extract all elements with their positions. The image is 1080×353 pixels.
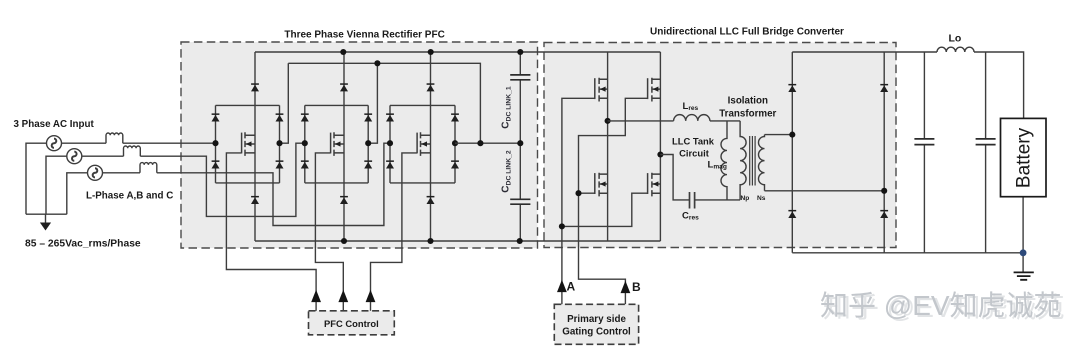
svg-text:Ns: Ns <box>757 195 766 202</box>
wire source A left <box>26 143 47 214</box>
diode leg2 left upper <box>301 113 309 121</box>
diode rect left top <box>788 84 796 92</box>
diode leg1 top <box>251 83 259 91</box>
mosfet QA top-left <box>595 78 608 102</box>
wire phase C into box <box>157 143 390 225</box>
node secondary top <box>789 132 795 138</box>
capacitor Cout1 <box>914 139 934 145</box>
arrow B <box>621 281 631 293</box>
wire leg1 left column <box>215 105 217 182</box>
inductor Lc <box>140 163 157 173</box>
svg-text:3 Phase AC Input: 3 Phase AC Input <box>14 119 95 130</box>
wire ground stem <box>45 214 47 222</box>
wire leg1 gate lead <box>226 153 316 311</box>
wire DC+ top rail <box>255 51 660 53</box>
node leg2 right <box>365 140 371 146</box>
node leg2 left <box>302 140 308 146</box>
wire battery bottom <box>1022 197 1024 253</box>
wire leg3 gate lead <box>371 153 418 311</box>
svg-text:知乎 @EV知虎诚苑: 知乎 @EV知虎诚苑 <box>820 290 1062 321</box>
wire leg1 box top <box>216 104 280 106</box>
wire node B to Cres <box>660 155 689 200</box>
svg-text:LLC Tank: LLC Tank <box>672 136 715 147</box>
transformer core <box>750 136 755 186</box>
LLC dashed box <box>544 43 896 248</box>
wire midpoint rail2 <box>288 63 480 143</box>
wire leg1 right node to midpoint rail <box>280 63 289 143</box>
wire phase B into box <box>140 143 304 216</box>
node midline rail2drop <box>477 140 483 146</box>
diode leg3 left lower <box>386 160 394 168</box>
wire ground stem right <box>1022 253 1024 272</box>
wire source B left <box>46 156 67 214</box>
wire phase A horizontal <box>62 142 107 144</box>
wire leg1 box bottom <box>216 182 280 184</box>
svg-text:Primary side: Primary side <box>567 314 626 325</box>
AC source Vb <box>67 149 82 164</box>
wire cap column upper <box>519 52 521 143</box>
node gateA branch <box>559 223 565 229</box>
diode leg3 right upper <box>451 113 459 121</box>
wire Cres to primary bottom <box>695 199 741 201</box>
svg-text:A: A <box>567 280 576 294</box>
svg-text:Isolation: Isolation <box>728 96 768 107</box>
diode leg1 right upper <box>276 113 284 121</box>
wire leg2 box bottom <box>305 182 368 184</box>
diode leg1 left lower <box>212 160 220 168</box>
watermark <box>820 290 1065 323</box>
diode leg2 top <box>340 83 348 91</box>
arrow A <box>557 280 567 292</box>
wire gate A net <box>562 98 648 304</box>
wire node A to Lres <box>608 120 674 122</box>
node botrail leg3 <box>427 238 433 244</box>
svg-text:Gating Control: Gating Control <box>562 327 631 338</box>
wire secondary top rail <box>792 51 937 53</box>
battery box <box>1001 118 1047 196</box>
node botrail leg2 <box>341 238 347 244</box>
gating control box <box>554 304 638 344</box>
wire bridge right vertical <box>659 52 661 241</box>
node rail2 leg2 <box>374 60 380 66</box>
arrow gate3 <box>366 290 376 302</box>
wire leg2 gate lead <box>315 153 343 311</box>
svg-text:PFC Control: PFC Control <box>324 318 379 329</box>
diode leg2 left lower <box>301 160 309 168</box>
svg-text:Lo: Lo <box>949 33 962 45</box>
inductor La <box>106 133 123 143</box>
diode rect left bottom <box>788 210 796 218</box>
svg-text:Unidirectional LLC Full Bridge: Unidirectional LLC Full Bridge Converter <box>650 27 844 38</box>
wire Lres to primary <box>710 120 740 122</box>
arrow gate2 <box>338 290 348 302</box>
wire cap column lower <box>519 143 521 241</box>
pfc control box <box>309 311 395 335</box>
wire secondary top <box>765 134 793 136</box>
mosfet Q3 <box>417 132 430 156</box>
Vienna PFC dashed box <box>181 42 538 248</box>
wire gate B net <box>579 98 648 304</box>
svg-text:Three Phase Vienna Rectifier P: Three Phase Vienna Rectifier PFC <box>284 30 444 41</box>
node output ground <box>1020 249 1027 256</box>
wire phase B horizontal <box>82 155 124 157</box>
node rail1 leg3 <box>428 49 434 55</box>
wire leg3 center vertical <box>430 52 432 241</box>
mosfet QC bottom-left <box>595 173 608 197</box>
node rail1 cap <box>517 49 523 55</box>
wire leg3 box top <box>390 104 455 106</box>
node rail1 leg2 <box>340 49 346 55</box>
diode leg2 bottom <box>340 196 348 204</box>
svg-text:Transformer: Transformer <box>719 109 776 120</box>
node leg1 left <box>212 140 218 146</box>
capacitor CDC1 <box>510 75 530 80</box>
ground symbol right <box>1014 272 1034 279</box>
AC source Vc <box>88 165 103 180</box>
wire secondary bottom <box>765 190 885 192</box>
wire bridge left vertical <box>607 52 609 241</box>
node secondary bottom <box>881 188 887 194</box>
capacitor Cout2 <box>976 139 996 145</box>
inductor Lb <box>124 146 141 156</box>
inductor Lmag <box>721 121 727 199</box>
wire rectifier right leg <box>883 52 885 253</box>
svg-text:Circuit: Circuit <box>679 148 709 159</box>
ground arrow input <box>40 223 51 231</box>
mosfet Q1 <box>242 132 255 156</box>
node B <box>657 151 663 157</box>
wire phase C horizontal <box>103 172 141 174</box>
wire cap out 1 <box>923 52 925 253</box>
wire leg2 right node to midpoint rail <box>368 63 377 143</box>
wire DC- bottom rail <box>255 240 660 242</box>
node leg3 left <box>387 140 393 146</box>
wire secondary bottom rail <box>792 252 1023 254</box>
svg-text:85 – 265Vac_rms/Phase: 85 – 265Vac_rms/Phase <box>25 239 141 250</box>
wire leg1 center vertical <box>254 52 256 241</box>
diode leg2 right lower <box>364 160 372 168</box>
wire leg1 right column <box>279 105 281 182</box>
node A <box>605 118 611 124</box>
node gateB branch <box>575 190 581 196</box>
mosfet Q2 <box>331 132 344 156</box>
arrow gate1 <box>311 290 321 302</box>
diode leg1 right lower <box>276 160 284 168</box>
wire rectifier left leg <box>791 52 793 253</box>
mosfet QD bottom-right <box>648 173 661 197</box>
node leg1 right <box>276 140 282 146</box>
node midline cap <box>517 140 523 146</box>
inductor Lo <box>937 47 974 52</box>
wire midpoint line <box>455 142 520 144</box>
diode leg1 bottom <box>251 196 259 204</box>
wire phase A to leg1 <box>123 142 216 144</box>
node botrail cap <box>517 238 523 244</box>
wire top rail to battery <box>974 52 1024 118</box>
diode leg3 left upper <box>386 113 394 121</box>
diode leg3 right lower <box>451 160 459 168</box>
wire leg2 left column <box>304 105 306 182</box>
svg-text:B: B <box>632 280 641 294</box>
wire leg2 center vertical <box>343 52 345 241</box>
diode rect right bottom <box>880 210 888 218</box>
diode rect right top <box>880 84 888 92</box>
diode leg2 right upper <box>364 113 372 121</box>
wire cap out 2 <box>985 52 987 253</box>
wire source C left <box>67 173 88 214</box>
capacitor Cres <box>690 192 695 209</box>
wire leg3 right column <box>454 105 456 182</box>
svg-text:Battery: Battery <box>1014 127 1035 188</box>
transformer secondary <box>759 135 765 191</box>
svg-text:L-Phase A,B and C: L-Phase A,B and C <box>86 191 173 202</box>
wire leg3 left column <box>389 105 391 182</box>
diode leg3 top <box>427 83 435 91</box>
transformer primary <box>740 121 746 200</box>
mosfet QB top-right <box>648 78 661 102</box>
capacitor CDC2 <box>510 199 530 204</box>
node leg3 right <box>452 140 458 146</box>
wire leg2 right column <box>367 105 369 182</box>
wire leg3 box bottom <box>390 182 455 184</box>
wire ground bus <box>26 213 67 215</box>
svg-text:Np: Np <box>741 195 750 202</box>
diode leg3 bottom <box>427 196 435 204</box>
AC source Va <box>47 136 62 151</box>
inductor Lres <box>674 115 710 121</box>
diode leg1 left upper <box>212 113 220 121</box>
wire leg2 box top <box>305 104 368 106</box>
